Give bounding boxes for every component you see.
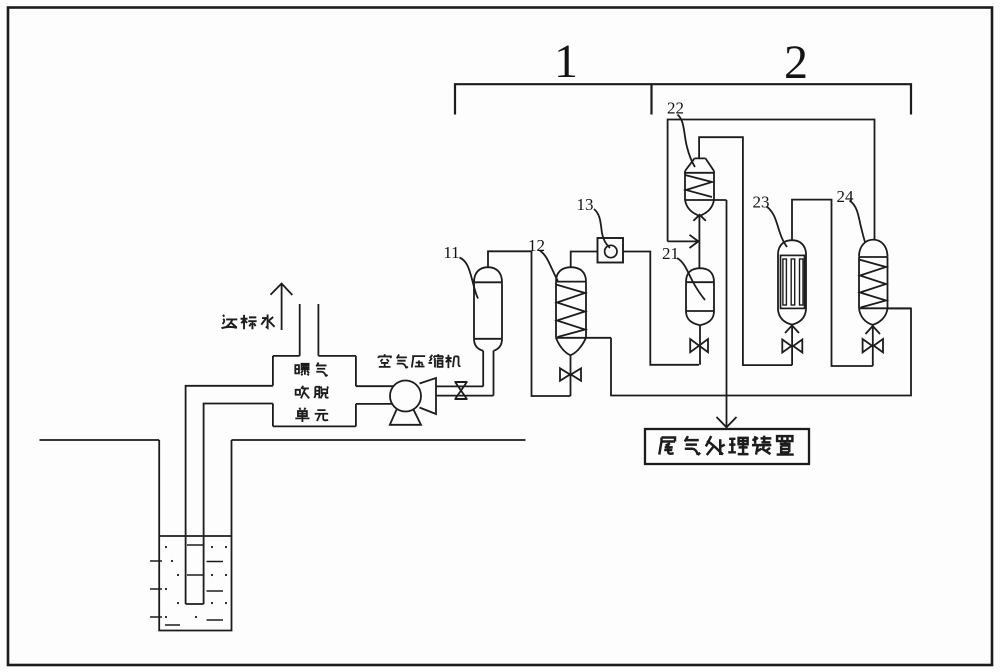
svg-text:22: 22 [667, 99, 684, 118]
svg-text:11: 11 [443, 243, 459, 262]
svg-text:1: 1 [554, 35, 578, 88]
svg-text:12: 12 [528, 236, 545, 255]
svg-text:23: 23 [753, 193, 770, 212]
svg-text:13: 13 [577, 195, 594, 214]
svg-text:24: 24 [837, 187, 855, 206]
svg-text:21: 21 [662, 244, 679, 263]
svg-text:2: 2 [784, 36, 808, 89]
